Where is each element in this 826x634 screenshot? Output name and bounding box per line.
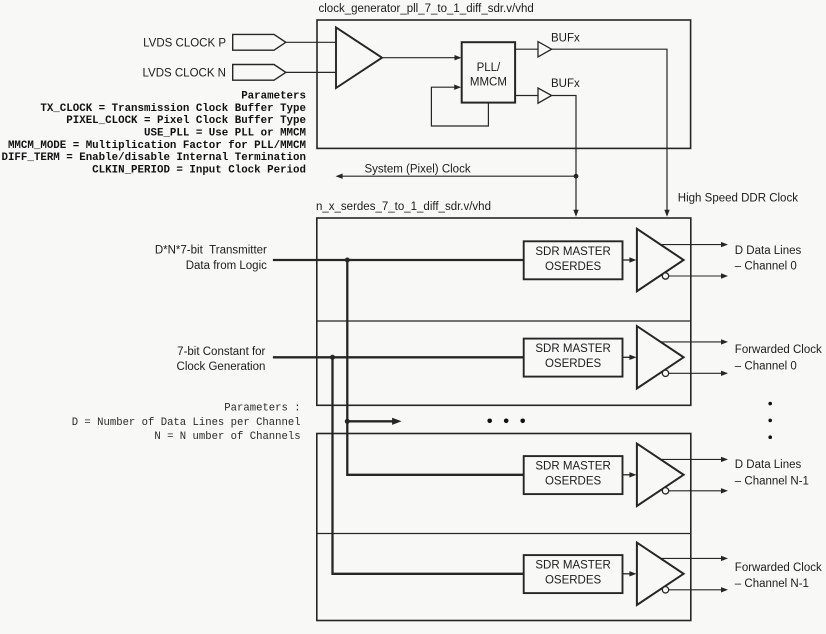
wire clock constant to channel N-1 bbox=[333, 357, 524, 574]
inverter bubble row 2 bbox=[662, 488, 668, 494]
svg-text:SDR MASTER: SDR MASTER bbox=[535, 246, 610, 258]
arrow OSERDES to output buffer row 0 bbox=[623, 257, 637, 262]
wire complement output row 1 bbox=[669, 371, 728, 376]
wire PLL to BUFx bottom bbox=[515, 95, 538, 97]
arrow OSERDES to output buffer row 3 bbox=[623, 571, 637, 576]
svg-text:– Channel N-1: – Channel N-1 bbox=[735, 475, 809, 487]
wire clock constant bus bbox=[273, 356, 524, 358]
svg-text:D*N*7-bit Transmitter: D*N*7-bit Transmitter bbox=[155, 245, 267, 257]
svg-text:OSERDES: OSERDES bbox=[545, 575, 602, 587]
svg-text:7-bit Constant for: 7-bit Constant for bbox=[177, 346, 265, 358]
ellipsis horizontal bbox=[487, 419, 525, 424]
junction dot clock constant bbox=[330, 355, 335, 360]
svg-text:SDR MASTER: SDR MASTER bbox=[535, 461, 610, 473]
svg-text:Data from Logic: Data from Logic bbox=[186, 260, 267, 272]
svg-text:OSERDES: OSERDES bbox=[545, 261, 602, 273]
box serdes channel 0 bbox=[317, 218, 691, 405]
svg-text:BUFx: BUFx bbox=[551, 78, 580, 90]
wire true output row 2 bbox=[661, 457, 729, 462]
svg-text:DIFF_TERM = Enable/disable Int: DIFF_TERM = Enable/disable Internal Term… bbox=[1, 152, 306, 164]
wire complement output row 0 bbox=[669, 273, 728, 278]
buffer BUFx top bbox=[538, 42, 552, 57]
box clock generator module U1 bbox=[317, 20, 691, 148]
module title clock_generator bbox=[319, 3, 534, 15]
label BUFx top bbox=[551, 33, 580, 45]
label output row 3 bbox=[735, 562, 822, 590]
svg-text:– Channel 0: – Channel 0 bbox=[735, 360, 797, 372]
svg-text:SDR MASTER: SDR MASTER bbox=[535, 560, 610, 572]
svg-text:High Speed DDR Clock: High Speed DDR Clock bbox=[678, 192, 798, 204]
svg-text:– Channel 0: – Channel 0 bbox=[735, 261, 797, 273]
svg-text:CLKIN_PERIOD = Input Clock Per: CLKIN_PERIOD = Input Clock Period bbox=[92, 164, 306, 176]
svg-text:MMCM_MODE = Multiplication Fac: MMCM_MODE = Multiplication Factor for PL… bbox=[8, 140, 306, 152]
arrow OSERDES to output buffer row 1 bbox=[623, 355, 637, 360]
svg-text:N = N umber of Channels: N = N umber of Channels bbox=[154, 431, 300, 443]
svg-text:– Channel N-1: – Channel N-1 bbox=[735, 578, 809, 590]
output buffer triangle row 3 bbox=[637, 543, 684, 605]
svg-text:n_x_serdes_7_to_1_diff_sdr.v/v: n_x_serdes_7_to_1_diff_sdr.v/vhd bbox=[316, 201, 491, 213]
svg-text:LVDS CLOCK P: LVDS CLOCK P bbox=[143, 37, 226, 49]
svg-text:Clock Generation: Clock Generation bbox=[177, 361, 266, 373]
wire system pixel clock left arrow bbox=[336, 174, 576, 179]
wire system pixel clock down bbox=[552, 96, 579, 217]
wire transmitter data bus bbox=[273, 259, 524, 261]
divider channel N-1 bbox=[317, 533, 691, 535]
label output row 1 bbox=[735, 344, 822, 373]
input connector LVDS CLOCK P bbox=[233, 34, 286, 50]
wire PLL to BUFx top bbox=[515, 48, 538, 50]
OSERDES block row 2 bbox=[524, 456, 623, 494]
output buffer triangle row 0 bbox=[637, 229, 684, 291]
junction dot data bus bbox=[345, 258, 350, 263]
label output row 0 bbox=[735, 245, 802, 273]
inverter bubble row 1 bbox=[662, 370, 668, 376]
svg-text:Parameters :: Parameters : bbox=[224, 403, 300, 415]
label System (Pixel) Clock bbox=[365, 164, 471, 176]
ellipsis vertical bbox=[768, 402, 772, 439]
wire high speed DDR clock bbox=[552, 49, 670, 217]
svg-text:USE_PLL = Use PLL or MMCM: USE_PLL = Use PLL or MMCM bbox=[144, 128, 306, 140]
feedback wire PLL bbox=[431, 85, 488, 127]
wire true output row 0 bbox=[661, 242, 729, 247]
output buffer triangle row 2 bbox=[637, 444, 684, 506]
svg-text:Forwarded Clock: Forwarded Clock bbox=[735, 344, 822, 356]
svg-text:System (Pixel) Clock: System (Pixel) Clock bbox=[365, 164, 471, 176]
svg-text:clock_generator_pll_7_to_1_dif: clock_generator_pll_7_to_1_diff_sdr.v/vh… bbox=[319, 3, 534, 15]
label BUFx bottom bbox=[551, 78, 580, 90]
svg-text:LVDS CLOCK N: LVDS CLOCK N bbox=[142, 67, 226, 79]
OSERDES block row 1 bbox=[524, 339, 623, 377]
wire true output row 1 bbox=[661, 339, 729, 344]
junction dot system clock bbox=[574, 174, 579, 179]
arrow OSERDES to output buffer row 2 bbox=[623, 472, 637, 477]
box serdes channel N-1 bbox=[317, 434, 691, 621]
wire buffer to PLL with arrow bbox=[382, 55, 462, 60]
label output row 2 bbox=[735, 459, 809, 488]
OSERDES block row 0 bbox=[524, 241, 623, 279]
input buffer IBUFDS bbox=[336, 27, 382, 88]
svg-text:D = Number of Data Lines per C: D = Number of Data Lines per Channel bbox=[72, 417, 301, 429]
input connector LVDS CLOCK N bbox=[233, 65, 286, 81]
serdes parameters text bbox=[72, 403, 301, 443]
inverter bubble row 3 bbox=[662, 587, 668, 593]
svg-text:Parameters: Parameters bbox=[241, 91, 306, 103]
svg-text:Forwarded Clock: Forwarded Clock bbox=[735, 562, 822, 574]
buffer BUFx bottom bbox=[538, 88, 552, 103]
wire complement output row 3 bbox=[669, 587, 728, 592]
OSERDES block row 3 bbox=[524, 555, 623, 593]
output buffer triangle row 1 bbox=[637, 326, 684, 388]
svg-text:OSERDES: OSERDES bbox=[545, 476, 602, 488]
svg-text:BUFx: BUFx bbox=[551, 33, 580, 45]
wire true output row 3 bbox=[661, 556, 729, 561]
divider channel 0 bbox=[317, 320, 691, 322]
clock generator parameters text bbox=[1, 91, 306, 177]
svg-text:SDR MASTER: SDR MASTER bbox=[535, 343, 610, 355]
svg-text:PIXEL_CLOCK = Pixel Clock Buff: PIXEL_CLOCK = Pixel Clock Buffer Type bbox=[66, 115, 306, 127]
svg-text:PLL/: PLL/ bbox=[477, 62, 501, 74]
wire LVDS N to input buffer bbox=[286, 71, 336, 73]
wire LVDS P to input buffer bbox=[286, 41, 336, 43]
svg-text:TX_CLOCK = Transmission Clock: TX_CLOCK = Transmission Clock Buffer Typ… bbox=[40, 103, 306, 115]
svg-text:D Data Lines: D Data Lines bbox=[735, 459, 802, 471]
continuation arrow bold bbox=[347, 418, 401, 425]
label transmitter data input bbox=[155, 245, 267, 272]
wire data bus to channel N-1 bbox=[347, 260, 523, 475]
PLL/MMCM block bbox=[462, 42, 515, 102]
label LVDS CLOCK P bbox=[143, 37, 226, 49]
module title n_x_serdes bbox=[316, 201, 491, 213]
junction dot continuation arrow bbox=[345, 419, 350, 424]
svg-text:OSERDES: OSERDES bbox=[545, 358, 602, 370]
label High Speed DDR Clock bbox=[678, 192, 798, 204]
inverter bubble row 0 bbox=[662, 273, 668, 279]
label LVDS CLOCK N bbox=[142, 67, 226, 79]
svg-text:D Data Lines: D Data Lines bbox=[735, 245, 802, 257]
label 7-bit constant input bbox=[177, 346, 266, 373]
svg-text:MMCM: MMCM bbox=[470, 77, 507, 89]
wire complement output row 2 bbox=[669, 488, 728, 493]
